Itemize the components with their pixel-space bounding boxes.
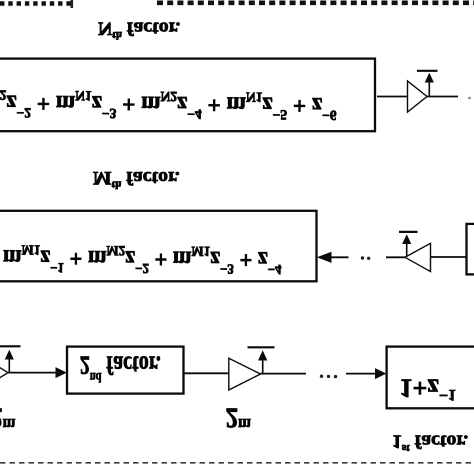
- arrow into box2: [330, 256, 349, 258]
- box U2 Mth factor polynomial: [0, 211, 317, 281]
- dashed border bottom: [0, 462, 474, 464]
- text 2nd factor: [80, 350, 161, 386]
- svg-text:1+z−1: 1+z−1: [400, 373, 456, 403]
- bar amp1: [417, 70, 438, 72]
- wire amp3 to box3: [8, 372, 56, 374]
- dashed border top-right segment: [157, 0, 474, 5]
- label Nth factor: [98, 17, 180, 40]
- bar amp4: [248, 346, 275, 348]
- formula Mth factor: [3, 242, 282, 277]
- wire amp4 out: [261, 373, 307, 375]
- svg-text:mN2z−2 + mN1z−3 + mN2z−4 + mN1: mN2z−2 + mN1z−3 + mN2z−4 + mN1z−5 + z−6: [0, 87, 337, 123]
- label 2^m amp4: [226, 402, 252, 434]
- svg-text:mM1z−1 + mM2z−2 + mM1z−3 + z−4: mM1z−1 + mM2z−2 + mM1z−3 + z−4: [3, 242, 282, 277]
- dashed border top-left segment: [0, 1, 73, 6]
- box U3 2nd factor: [67, 347, 184, 394]
- coefficient arrow amp1: [428, 79, 430, 97]
- wire box1 to amp1: [377, 96, 408, 98]
- svg-text:Nth factor.: Nth factor.: [98, 17, 180, 40]
- formula Nth factor: [0, 87, 337, 123]
- ellipsis dot: [468, 97, 471, 100]
- wire amp2 to box5: [431, 256, 467, 258]
- svg-text:2m: 2m: [226, 402, 252, 434]
- wire into box4: [346, 373, 375, 375]
- dashed border end tick: [71, 0, 74, 8]
- svg-text:2nd factor.: 2nd factor.: [80, 350, 161, 386]
- label 2^m left (cut): [0, 402, 16, 434]
- coefficient arrow amp3: [8, 356, 10, 373]
- box U4 1st factor: [387, 347, 474, 409]
- ellipsis row3: [320, 375, 323, 378]
- box U1 Nth factor polynomial: [0, 59, 375, 132]
- svg-text:1st factor.: 1st factor.: [392, 431, 468, 454]
- label 1st factor: [392, 431, 468, 454]
- wire row2: [386, 256, 405, 258]
- svg-text:2m: 2m: [0, 402, 16, 434]
- label Mth factor: [93, 167, 180, 190]
- bar amp2: [399, 231, 418, 233]
- amplifier A2 triangle (points left): [405, 243, 431, 271]
- wire amp1 out: [427, 96, 458, 98]
- coefficient arrow amp4: [262, 356, 264, 374]
- amplifier A3 triangle (cut at left edge): [0, 358, 8, 387]
- ellipsis row2: [361, 256, 364, 259]
- amplifier A1 triangle: [408, 81, 428, 112]
- wire box3 to amp4: [184, 372, 229, 374]
- box U5 (cut at right edge): [467, 224, 474, 275]
- svg-text:Mth factor.: Mth factor.: [93, 167, 180, 190]
- amplifier A4 triangle: [229, 358, 261, 390]
- coefficient arrow amp2: [406, 240, 408, 257]
- text 1 + z^-1: [400, 373, 456, 403]
- bar amp3: [0, 345, 21, 347]
